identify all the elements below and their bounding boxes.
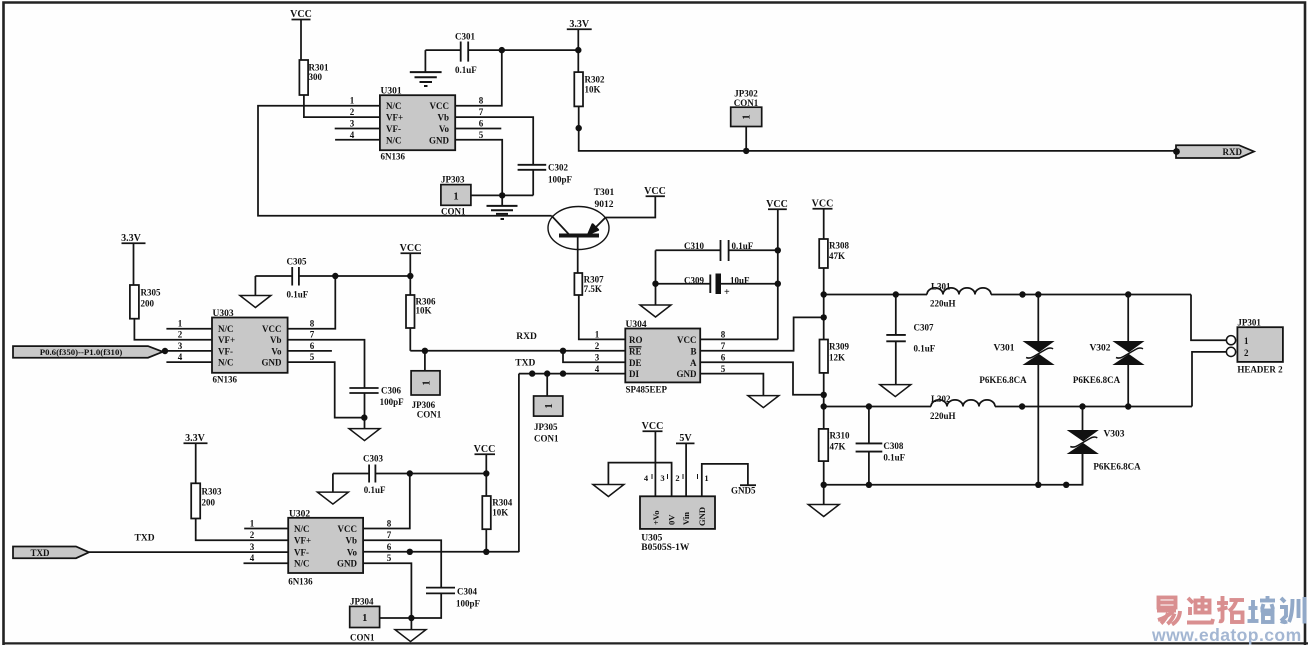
ground under C306 <box>349 429 380 441</box>
inductor L301 220uH <box>824 282 1191 309</box>
wire U304 pin8 VCC <box>700 338 778 340</box>
svg-text:1: 1 <box>350 96 355 106</box>
svg-text:C305: C305 <box>287 257 307 267</box>
svg-text:U301: U301 <box>381 87 402 97</box>
char di (pink) <box>1187 596 1213 623</box>
svg-text:0.1uF: 0.1uF <box>914 344 936 354</box>
svg-text:5: 5 <box>387 553 392 563</box>
svg-text:1: 1 <box>1244 336 1249 346</box>
VCC symbol (R306) <box>400 243 422 295</box>
svg-text:VCC: VCC <box>290 9 312 20</box>
svg-text:VF+: VF+ <box>386 113 403 123</box>
VCC symbol (U304) <box>766 199 788 339</box>
svg-text:Vo: Vo <box>439 124 450 134</box>
wire U301 pin4 stub <box>335 139 380 141</box>
svg-text:6N136: 6N136 <box>288 576 313 586</box>
junction C307 top <box>893 291 899 297</box>
svg-text:P6KE6.8CA: P6KE6.8CA <box>1073 375 1121 385</box>
svg-text:1: 1 <box>250 519 255 529</box>
svg-text:5: 5 <box>310 352 315 362</box>
svg-text:TXD: TXD <box>135 534 155 544</box>
diode V301 P6KE6.8CA <box>979 295 1053 485</box>
wire C301 left to earth ground <box>424 50 426 71</box>
wire U303 pin7 to C306 <box>288 340 365 388</box>
wire U305 GND to GND5 <box>702 464 748 496</box>
wire JP303 to gnd node <box>471 194 533 196</box>
svg-text:0.1uF: 0.1uF <box>455 65 477 75</box>
wire TXD riser to DI <box>518 374 520 552</box>
svg-text:300: 300 <box>309 72 323 82</box>
pin numbers U302 <box>250 519 392 564</box>
svg-text:4: 4 <box>250 553 255 563</box>
junction C305 row VCC <box>407 273 413 279</box>
VCC symbol (R308) <box>812 199 834 240</box>
svg-text:Vb: Vb <box>437 113 449 123</box>
svg-text:R309: R309 <box>829 342 849 352</box>
svg-text:1: 1 <box>421 380 433 386</box>
char xun (blue) <box>1280 597 1305 624</box>
wire DI line <box>519 373 625 375</box>
svg-text:4: 4 <box>350 130 355 140</box>
junction V302 top <box>1125 291 1131 297</box>
svg-text:N/C: N/C <box>218 324 234 334</box>
junction JP306 riser <box>422 348 428 354</box>
svg-text:8: 8 <box>479 96 484 106</box>
svg-text:VF-: VF- <box>218 346 233 356</box>
svg-text:7: 7 <box>310 330 315 340</box>
svg-text:R305: R305 <box>141 288 161 298</box>
svg-text:Vin: Vin <box>681 512 691 525</box>
junction V301 bottom <box>1035 482 1041 488</box>
svg-text:10K: 10K <box>416 306 432 316</box>
wire U302 pin1 stub <box>244 528 288 530</box>
svg-text:Vo: Vo <box>271 346 282 356</box>
wire R305 to U303 pin2 <box>134 319 212 340</box>
svg-text:P0.6(f350)--P1.0(f310): P0.6(f350)--P1.0(f310) <box>40 347 123 357</box>
svg-text:VCC: VCC <box>262 324 282 334</box>
capacitor C302 100pF <box>455 117 572 195</box>
capacitor C304 100pF <box>411 587 480 619</box>
svg-text:B0505S-1W: B0505S-1W <box>641 543 690 553</box>
junction on R302 leg <box>576 125 582 131</box>
wire U302 pin8 riser <box>363 474 410 529</box>
junction Vo dot <box>407 549 413 555</box>
svg-text:DI: DI <box>629 369 639 379</box>
svg-text:TXD: TXD <box>30 548 50 558</box>
svg-text:VCC: VCC <box>338 524 358 534</box>
svg-text:2: 2 <box>675 473 679 483</box>
capacitor C310 0.1uF <box>656 240 778 261</box>
capacitor C306 100pF <box>349 386 404 429</box>
connector JP305 CON1 <box>534 374 563 444</box>
wire A row to JP301 pin1 <box>1191 295 1226 341</box>
svg-text:VCC: VCC <box>812 199 834 210</box>
svg-text:U302: U302 <box>289 509 310 519</box>
wire R309 to R310 <box>823 373 825 429</box>
svg-text:U304: U304 <box>626 320 647 330</box>
svg-text:3: 3 <box>350 119 355 129</box>
wire U304 pin7 B to bias node <box>700 317 824 350</box>
svg-text:10K: 10K <box>585 85 601 95</box>
svg-text:R307: R307 <box>584 275 604 285</box>
svg-text:SP485EEP: SP485EEP <box>626 385 668 395</box>
junction gnd row dot <box>1063 482 1069 488</box>
pin numbers U301 <box>350 96 484 140</box>
svg-text:V301: V301 <box>993 344 1014 354</box>
svg-text:6N136: 6N136 <box>381 152 406 162</box>
wire RE line from R306 <box>410 350 625 352</box>
connector JP304 CON1 <box>350 597 380 643</box>
wire B row to JP301 pin2 <box>1192 352 1226 407</box>
ground under C303 <box>317 492 348 504</box>
junction DI dots <box>529 370 535 376</box>
ground under C307 <box>880 385 911 397</box>
svg-text:1: 1 <box>453 191 458 202</box>
ground under U304 pin5 <box>748 396 779 408</box>
svg-text:JP301: JP301 <box>1237 318 1261 328</box>
junction A-row <box>821 291 827 297</box>
svg-text:6: 6 <box>721 353 726 363</box>
svg-text:U303: U303 <box>213 309 234 319</box>
resistor R307 7.5K <box>574 273 604 295</box>
svg-text:100pF: 100pF <box>380 397 405 407</box>
node 3.3V (U302) <box>184 433 208 483</box>
wire U301 pin6 stub <box>455 128 501 130</box>
svg-text:HEADER 2: HEADER 2 <box>1237 365 1283 375</box>
svg-text:2: 2 <box>178 330 183 340</box>
resistor R302 10K <box>574 72 605 106</box>
svg-text:GND: GND <box>262 358 283 368</box>
svg-text:3: 3 <box>250 542 255 552</box>
ground under C305 <box>240 296 271 308</box>
svg-text:5V: 5V <box>679 433 692 444</box>
resistor R306 10K <box>406 295 436 328</box>
svg-text:JP302: JP302 <box>734 89 758 99</box>
inductor L302 220uH <box>824 394 1192 421</box>
pin numbers U304 <box>595 330 726 374</box>
svg-text:VF+: VF+ <box>218 335 235 345</box>
svg-text:C308: C308 <box>883 441 903 451</box>
resistor R301 300 <box>299 60 329 95</box>
svg-text:3: 3 <box>178 341 183 351</box>
wire JP302 to RXD line <box>745 127 747 151</box>
svg-text:5: 5 <box>721 364 726 374</box>
svg-text:GND: GND <box>677 369 698 379</box>
svg-text:R308: R308 <box>829 241 849 251</box>
svg-text:R303: R303 <box>202 487 222 497</box>
svg-text:VCC: VCC <box>766 199 788 210</box>
wire TXD to U302 pin3 <box>89 551 288 553</box>
svg-text:47K: 47K <box>829 251 845 261</box>
junction C303 row pin8 <box>407 470 413 476</box>
svg-text:7.5K: 7.5K <box>584 284 602 294</box>
node P0.6 tag <box>13 346 168 358</box>
svg-text:100pF: 100pF <box>548 175 573 185</box>
svg-text:2: 2 <box>1244 348 1249 358</box>
svg-text:GND5: GND5 <box>731 486 756 496</box>
junction C306 gnd <box>361 414 367 420</box>
junction A bias <box>821 392 827 398</box>
junction 3.3V-C301 <box>575 47 581 53</box>
svg-text:0.1uF: 0.1uF <box>364 485 386 495</box>
junction JP303-gnd <box>499 192 505 198</box>
svg-text:VCC: VCC <box>677 335 697 345</box>
wire U301 pin5 to gnd <box>455 140 502 205</box>
svg-text:R301: R301 <box>309 63 329 73</box>
wire R302 to RXD line <box>579 106 1176 150</box>
svg-text:2: 2 <box>595 341 600 351</box>
resistor R308 47K <box>819 239 849 268</box>
junction V302 bottom <box>1125 403 1131 409</box>
wire U303 pin8 riser <box>288 276 336 329</box>
svg-text:200: 200 <box>141 299 155 309</box>
wire U305 0V to gnd <box>608 463 671 497</box>
svg-text:C301: C301 <box>455 32 475 42</box>
capacitor C303 0.1uF <box>333 454 486 496</box>
wire R310 to gnd <box>823 461 825 504</box>
char tuo (pink) <box>1217 596 1244 622</box>
wire C305 left to gnd <box>254 276 256 296</box>
wire U304 pin6 A to bias node <box>700 362 824 395</box>
pin numbers U303 <box>178 319 315 362</box>
svg-text:JP304: JP304 <box>350 597 374 607</box>
svg-text:TXD: TXD <box>515 359 535 369</box>
node 3.3V (top) <box>567 19 592 72</box>
wire U303 pin6 stub <box>288 350 332 352</box>
svg-text:220uH: 220uH <box>930 299 956 309</box>
junction C303 row VCC <box>483 470 489 476</box>
capacitor C305 0.1uF <box>255 257 410 300</box>
svg-text:1: 1 <box>741 114 753 120</box>
svg-text:CON1: CON1 <box>441 207 466 217</box>
svg-text:R304: R304 <box>492 498 512 508</box>
VCC symbol (T301) <box>644 186 666 197</box>
node 3.3V (U303) <box>121 233 145 285</box>
svg-text:1: 1 <box>595 330 600 340</box>
wire U303 pin4 stub <box>166 361 212 363</box>
svg-text:10K: 10K <box>492 508 508 518</box>
node RXD output tag <box>1173 145 1254 158</box>
svg-text:U305: U305 <box>641 534 662 544</box>
watermark <box>1151 596 1305 645</box>
svg-text:7: 7 <box>479 107 484 117</box>
op-amp U302 6N136 body <box>288 509 363 586</box>
ground under R310 <box>808 505 839 517</box>
svg-text:4: 4 <box>595 364 600 374</box>
svg-text:7: 7 <box>387 530 392 540</box>
junction V303 top <box>1079 403 1085 409</box>
wire U302 pin5 to gnd node <box>363 563 411 629</box>
svg-text:Vb: Vb <box>345 536 357 546</box>
wire U303 pin1 stub <box>166 328 212 330</box>
wire R308 to R309 <box>823 268 825 340</box>
svg-text:1: 1 <box>543 403 555 409</box>
svg-text:3: 3 <box>660 473 664 483</box>
svg-text:0V: 0V <box>667 514 677 525</box>
junction C310 right <box>775 247 781 253</box>
svg-text:2: 2 <box>250 530 255 540</box>
svg-text:0.1uF: 0.1uF <box>732 241 754 251</box>
svg-text:P6KE6.8CA: P6KE6.8CA <box>1093 462 1141 472</box>
svg-text:1: 1 <box>704 473 708 483</box>
junction L302 row dot <box>1019 403 1025 409</box>
VCC symbol (top left) <box>290 9 312 60</box>
svg-text:CON1: CON1 <box>417 410 442 420</box>
svg-text:V302: V302 <box>1089 344 1110 354</box>
svg-text:C307: C307 <box>914 323 934 333</box>
wire C303 left to gnd <box>332 474 334 493</box>
junction RE-DE tie <box>560 348 566 354</box>
svg-text:+: + <box>724 287 730 298</box>
svg-text:VCC: VCC <box>642 421 664 432</box>
svg-text:N/C: N/C <box>386 135 402 145</box>
svg-text:47K: 47K <box>830 442 846 452</box>
svg-text:JP305: JP305 <box>534 422 558 432</box>
svg-text:0.1uF: 0.1uF <box>883 453 905 463</box>
node TXD tag <box>13 547 89 559</box>
junction B bias <box>821 314 827 320</box>
resistor R304 10K <box>482 496 512 529</box>
connector JP302 CON1 <box>731 89 762 127</box>
svg-text:VCC: VCC <box>430 101 450 111</box>
svg-text:220uH: 220uH <box>930 411 956 421</box>
svg-text:www.edatop.com: www.edatop.com <box>1151 625 1302 645</box>
capacitor C308 0.1uF <box>856 407 906 485</box>
svg-text:C302: C302 <box>548 163 568 173</box>
connector JP306 CON1 <box>411 351 442 420</box>
wire U302 pin6 Vo line <box>363 551 519 553</box>
svg-text:RE: RE <box>629 346 642 356</box>
junction C308 top <box>866 403 872 409</box>
svg-text:DE: DE <box>629 358 642 368</box>
connector JP301 HEADER 2 <box>1226 318 1283 375</box>
wire R306 down to RE line <box>409 328 411 351</box>
junction V301 top <box>1019 291 1025 297</box>
op-amp U303 6N136 body <box>212 309 288 384</box>
svg-text:100pF: 100pF <box>456 599 481 609</box>
svg-text:8: 8 <box>387 519 392 529</box>
junction L302 row left <box>821 403 827 409</box>
svg-text:6: 6 <box>387 542 392 552</box>
junction C308 bottom <box>866 482 872 488</box>
svg-text:R310: R310 <box>830 431 850 441</box>
wire U302 pin4 stub <box>244 562 289 564</box>
svg-text:A: A <box>690 358 697 368</box>
svg-text:CON1: CON1 <box>534 434 559 444</box>
capacitor C307 0.1uF <box>886 295 935 385</box>
junction JP302-RXD <box>743 148 749 154</box>
svg-text:Vb: Vb <box>270 335 282 345</box>
wire DE tie bracket <box>563 351 625 363</box>
svg-text:VF+: VF+ <box>294 536 311 546</box>
svg-text:7: 7 <box>721 341 726 351</box>
junction C305 row pin8 <box>332 273 338 279</box>
resistor R310 47K <box>819 429 850 461</box>
svg-text:P6KE6.8CA: P6KE6.8CA <box>979 375 1027 385</box>
diode V302 P6KE6.8CA <box>1073 295 1143 407</box>
capacitor C301 0.1uF <box>425 32 501 76</box>
svg-text:R302: R302 <box>585 75 605 85</box>
char yi (pink) <box>1157 598 1180 625</box>
resistor R309 12K <box>820 340 850 373</box>
junction C309 right <box>775 281 781 287</box>
svg-text:9012: 9012 <box>595 200 614 210</box>
ground (earth) under JP303 node <box>487 206 518 219</box>
VCC symbol (U305) <box>642 421 664 496</box>
VCC symbol (R304) <box>474 444 496 496</box>
svg-text:4: 4 <box>178 352 183 362</box>
svg-text:N/C: N/C <box>218 358 234 368</box>
node 5V <box>676 433 695 496</box>
svg-text:8: 8 <box>721 330 726 340</box>
svg-text:Vo: Vo <box>347 547 358 557</box>
ground (earth) under C301 <box>410 72 442 86</box>
junction C301-pin8 <box>499 47 505 53</box>
ground under C304/JP304 <box>395 630 426 642</box>
svg-text:B: B <box>690 346 696 356</box>
svg-text:C306: C306 <box>381 386 401 396</box>
svg-text:RXD: RXD <box>516 332 537 342</box>
svg-text:6N136: 6N136 <box>213 374 238 384</box>
wire tag to U303 pin3 <box>165 350 212 352</box>
svg-text:VF-: VF- <box>294 547 309 557</box>
svg-text:V303: V303 <box>1103 430 1124 440</box>
char pei (blue) <box>1248 596 1276 622</box>
svg-text:N/C: N/C <box>294 524 310 534</box>
svg-text:N/C: N/C <box>386 101 402 111</box>
svg-text:5: 5 <box>479 130 484 140</box>
resistor R303 200 <box>191 483 222 518</box>
transistor T301 9012 <box>548 188 615 273</box>
wire T301 emitter to VCC <box>606 197 656 218</box>
svg-text:RO: RO <box>629 335 643 345</box>
svg-text:8: 8 <box>310 319 315 329</box>
wire R307 to U304 pin1 <box>579 295 626 339</box>
svg-text:VF-: VF- <box>386 124 401 134</box>
op-amp U305 B0505S-1W body <box>640 496 715 553</box>
pin numbers U305 <box>644 473 709 483</box>
svg-text:+Vo: +Vo <box>651 510 661 525</box>
wire R301 to U301 pin2 <box>304 95 380 117</box>
ground under C309/C310 <box>640 305 671 317</box>
diode V303 P6KE6.8CA <box>1068 407 1141 485</box>
op-amp U304 SP485EEP body <box>625 320 700 395</box>
svg-text:C303: C303 <box>363 454 383 464</box>
svg-text:JP303: JP303 <box>441 175 465 185</box>
wire U304 pin5 GND <box>700 374 763 396</box>
svg-text:N/C: N/C <box>294 559 310 569</box>
junction R304-Vo <box>483 549 489 555</box>
resistor R305 200 <box>130 285 161 319</box>
svg-text:12K: 12K <box>829 353 845 363</box>
svg-text:2: 2 <box>350 107 355 117</box>
junction C309 left <box>652 281 658 287</box>
wire U301 pin1 to T301 collector <box>258 106 552 216</box>
svg-text:GND: GND <box>697 507 707 526</box>
wire U302 pin7 to C304 <box>363 540 441 587</box>
svg-text:200: 200 <box>202 498 216 508</box>
junction gnd row left <box>821 482 827 488</box>
wire R303 to U302 pin2 <box>196 519 289 541</box>
wire U301 pin3 stub <box>335 128 380 130</box>
wire U301 pin8 to C301 node <box>455 50 502 106</box>
connector JP303 CON1 <box>441 175 471 217</box>
svg-text:T301: T301 <box>594 188 615 198</box>
svg-text:6: 6 <box>310 341 315 351</box>
svg-text:10uF: 10uF <box>730 276 750 286</box>
gnd row <box>824 454 1083 485</box>
wire C301 to 3.3V rail <box>502 49 579 51</box>
